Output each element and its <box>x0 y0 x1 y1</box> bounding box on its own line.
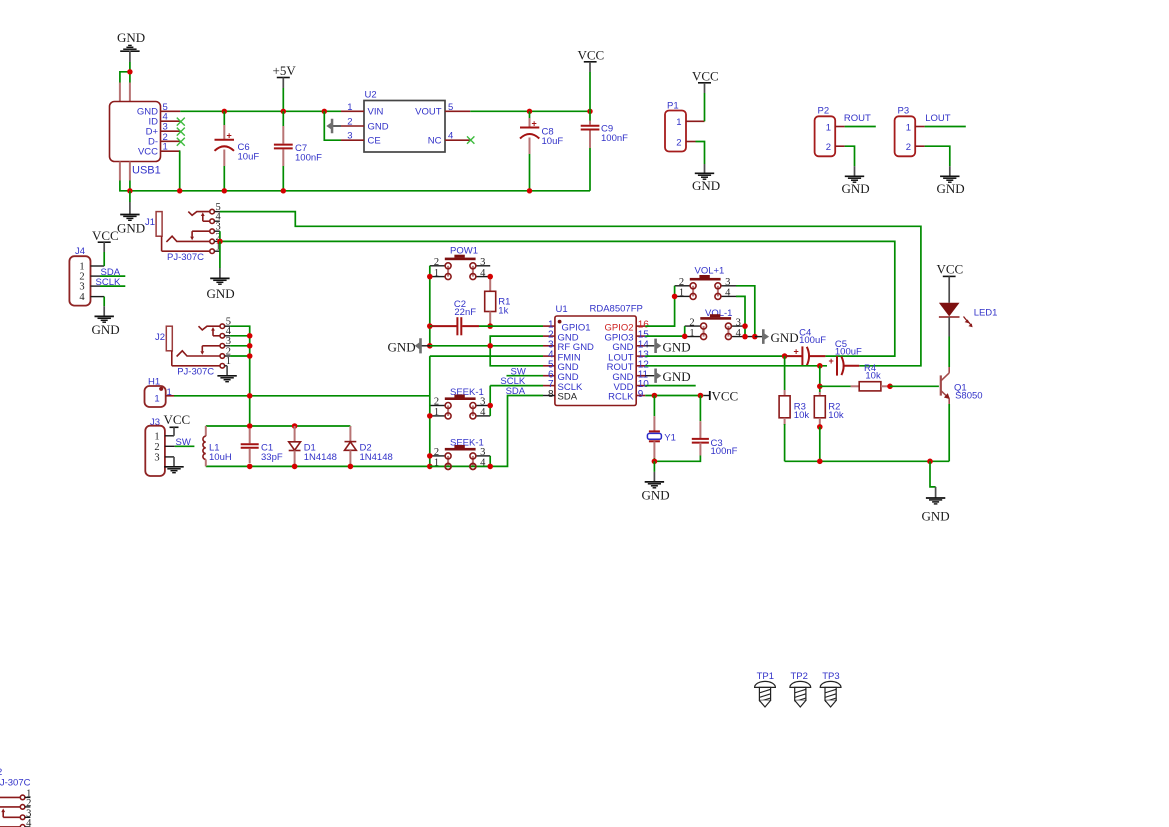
ground GND (below J1) <box>207 268 235 301</box>
svg-text:VCC: VCC <box>937 262 964 277</box>
svg-text:SDA: SDA <box>506 386 526 397</box>
wire: bottom rail to SDA riser <box>430 396 543 467</box>
no-connect X on USB1 pin 3 <box>177 128 185 136</box>
svg-text:3: 3 <box>480 397 485 408</box>
SEEK-1 lower pin1/pin4 circles (over rail) <box>445 463 451 469</box>
ground GND (below Y1) <box>642 472 670 502</box>
svg-text:9: 9 <box>638 389 644 400</box>
node: junction SEEK upper pin3 <box>487 403 493 409</box>
svg-text:GND: GND <box>692 178 720 193</box>
net label SCLK / wire U1 pin7 <box>490 376 543 387</box>
node: junction R4 right <box>887 384 893 390</box>
resistor R3 10k <box>779 390 809 425</box>
capacitor C4 100uF (series in LOUT) <box>786 327 826 366</box>
svg-text:10uF: 10uF <box>542 136 564 147</box>
svg-text:2: 2 <box>154 442 159 453</box>
ground GND (below P2) <box>842 166 870 196</box>
node: junction VOL-1 pin1 <box>682 334 688 340</box>
ground flag (arrow) GND for VOL buttons <box>755 329 799 345</box>
svg-text:GND: GND <box>207 286 235 301</box>
wire: J2 pin4 stub <box>230 335 250 337</box>
node: junction VOL buttons GND point <box>752 334 758 340</box>
svg-text:GND: GND <box>663 369 691 384</box>
node: junction CE branch on rail <box>322 109 327 114</box>
net label SCLK / wire J4 pin3 <box>96 277 126 288</box>
svg-text:2: 2 <box>434 257 439 268</box>
inductor L1 10uH <box>203 426 232 466</box>
node: junction at USB top ground <box>127 69 132 74</box>
wire: SEEK lower right pins vertical <box>489 456 491 467</box>
svg-text:GND: GND <box>388 339 416 354</box>
svg-text:10k: 10k <box>865 371 881 382</box>
transistor Q1 S8050 <box>941 367 983 404</box>
svg-text:10uF: 10uF <box>238 152 260 163</box>
svg-text:LED1: LED1 <box>974 307 998 318</box>
connector USB1 <box>110 83 181 181</box>
svg-text:2: 2 <box>679 277 684 288</box>
wire: R3 bottom to GND rail <box>784 424 786 461</box>
crystal Y1 <box>647 396 676 459</box>
header H1 (FM antenna) <box>145 377 175 408</box>
node: junction C6 on rail <box>222 109 227 114</box>
power VCC (above C9) <box>578 48 605 112</box>
node: junction SEEK upper pin1 <box>427 413 433 419</box>
LED LED1 <box>939 303 998 337</box>
node: junction VOL+1 pin4 / VOL-1 pin3 <box>742 323 748 329</box>
power VCC (above LED1) <box>937 262 964 303</box>
node: junction C6 on bottom rail <box>222 188 227 193</box>
svg-text:3: 3 <box>736 317 741 328</box>
wire: SEEK upper right pins to SCLK <box>489 386 491 416</box>
svg-text:10k: 10k <box>794 410 810 421</box>
svg-text:TP1: TP1 <box>757 671 774 682</box>
audio jack J2 PJ-307C <box>155 317 232 378</box>
svg-text:GND: GND <box>92 322 120 337</box>
svg-text:4: 4 <box>725 288 731 299</box>
wire: +5V rail from USB1 pin5 to U2 VIN <box>180 110 341 112</box>
svg-text:3: 3 <box>347 131 352 142</box>
net label SDA / wire J4 pin2 <box>100 267 125 278</box>
pushbutton POW1 <box>430 246 490 280</box>
svg-text:P3: P3 <box>898 106 910 117</box>
node: junction VCC stub / C9 <box>587 109 592 114</box>
wire: tank top rail <box>206 425 351 427</box>
ground flag (arrow) GND at U1 pin14 <box>645 339 690 355</box>
no-connect X on U2 NC pin <box>467 136 474 143</box>
svg-text:U2: U2 <box>365 90 377 101</box>
wire: J1 pin5 long route to C5 right (headphone R) <box>220 212 921 366</box>
wire: USB1 VCC pin down to bottom rail <box>179 151 182 191</box>
svg-text:RCLK: RCLK <box>608 392 634 403</box>
node: junction R4 left / R2 top <box>817 384 823 390</box>
wire: tank bottom rail <box>206 465 430 467</box>
power +5V <box>273 63 297 112</box>
svg-text:+5V: +5V <box>273 63 297 78</box>
svg-text:2: 2 <box>906 142 911 153</box>
node: junction SEEK lower pin1 on bottom rail <box>427 464 433 470</box>
svg-text:4: 4 <box>736 328 742 339</box>
wire: VOL+1 pin3 down to GND flag <box>736 286 755 337</box>
svg-text:8: 8 <box>548 389 554 400</box>
wire: POW1 left pins down to C2/GND net <box>429 266 431 346</box>
svg-text:4: 4 <box>79 292 85 303</box>
wire: H1 to antenna bus <box>174 395 430 397</box>
svg-text:2: 2 <box>676 137 681 148</box>
svg-text:5: 5 <box>448 102 453 113</box>
wire: U1 pin15 GPIO3 to VOL-1 left pins <box>645 326 685 336</box>
svg-text:RDA8507FP: RDA8507FP <box>590 304 643 315</box>
wire: bottom GND rail <box>120 181 590 191</box>
node: junction +5V / C7 on rail <box>281 109 286 114</box>
svg-text:3: 3 <box>480 447 485 458</box>
svg-text:GND: GND <box>937 181 965 196</box>
svg-text:+: + <box>829 356 834 366</box>
connector J3 <box>145 417 175 476</box>
svg-text:100uF: 100uF <box>799 335 826 346</box>
node: junction SEEK lower pin4 on rail <box>487 464 493 470</box>
node: junction on VOL-1 pin4 line <box>742 334 748 340</box>
wire: Q1 emitter down to GND rail <box>948 404 950 461</box>
wire: U1 pin13 LOUT <box>645 355 790 357</box>
node: junction J2 pin2 <box>247 353 253 359</box>
capacitor C7 100nF <box>274 111 322 191</box>
wire: U1 pin2 GND to GND net <box>490 336 543 366</box>
node: junction GND drop on right rail <box>927 459 933 465</box>
net label SW / wire J3 pin2 <box>175 437 195 448</box>
wire: down to crystal ground <box>653 461 655 472</box>
svg-text:33pF: 33pF <box>261 452 283 463</box>
svg-text:GND: GND <box>771 330 799 345</box>
svg-text:22nF: 22nF <box>454 307 476 318</box>
svg-text:PJ-307C: PJ-307C <box>0 778 31 789</box>
wire: P1 pin2 to ground <box>696 142 705 165</box>
svg-text:1: 1 <box>689 328 694 339</box>
svg-text:VCC: VCC <box>164 412 191 427</box>
svg-text:3: 3 <box>725 277 730 288</box>
svg-text:3: 3 <box>480 257 485 268</box>
svg-text:2: 2 <box>826 142 831 153</box>
wire: CE to +5V rail <box>324 111 341 140</box>
ground GND (top-left, flipped up) <box>117 30 145 62</box>
svg-text:P2: P2 <box>818 106 830 117</box>
svg-text:GND: GND <box>663 339 691 354</box>
node: junction Y1 tap on RCLK wire <box>652 393 658 399</box>
node: junction C3 tap <box>698 393 704 399</box>
wire: U1 pin12 ROUT <box>645 365 827 367</box>
svg-text:1: 1 <box>226 356 231 367</box>
node: junction VOL+1 pin1 <box>672 294 678 300</box>
svg-text:10uH: 10uH <box>209 452 232 463</box>
svg-text:U1: U1 <box>556 304 568 315</box>
capacitor C3 100nF <box>692 396 738 457</box>
ground GND (below P3) <box>937 166 965 196</box>
ground GND (below J4) <box>92 306 120 337</box>
node: junction at J1 pin2 <box>217 239 223 245</box>
test point TP2 <box>790 671 811 707</box>
net label LOUT / wire stub P3 pin1 <box>925 113 966 127</box>
wire: LED1 to Q1 collector <box>948 337 950 368</box>
svg-text:NC: NC <box>428 136 442 147</box>
svg-text:1: 1 <box>434 268 439 279</box>
wire: R4 to Q1 base <box>890 385 939 387</box>
node: junction GND vertical on RF GND wire <box>427 343 433 349</box>
resistor R1 1k <box>485 279 511 327</box>
wire: P2 pin2 to ground <box>845 146 855 166</box>
svg-text:2: 2 <box>347 117 352 128</box>
svg-text:4: 4 <box>448 131 453 142</box>
svg-text:2: 2 <box>689 317 694 328</box>
svg-text:GND: GND <box>117 30 145 45</box>
svg-text:VCC: VCC <box>712 388 739 403</box>
diode D2 1N4148 <box>345 426 393 466</box>
svg-text:J1: J1 <box>145 217 155 228</box>
diode D1 1N4148 <box>289 426 337 466</box>
node: junction SEEK lower pin2 <box>427 453 433 459</box>
wire: U2 VOUT to VCC rail <box>470 110 590 112</box>
wire: right GND rail <box>785 460 950 462</box>
wire: J1 pin3 to pin2 junction <box>219 231 221 241</box>
ground GND (bottom right) <box>922 487 950 524</box>
ground GND (below USB1) <box>117 191 145 236</box>
capacitor C6 10uF <box>215 111 260 191</box>
svg-text:100uF: 100uF <box>835 347 862 358</box>
wire: Y1/C3 bottom tie <box>654 456 700 462</box>
power VCC (at J3 pin1) <box>164 412 191 436</box>
wire: J2 pin5 to antenna bus <box>230 326 250 426</box>
node: junction D1 on tank rail <box>292 423 298 429</box>
capacitor C2 22nF (series in GPIO1 wire) <box>430 299 543 335</box>
node: junction Y1 ground point <box>652 459 658 465</box>
svg-text:VCC: VCC <box>578 48 605 63</box>
capacitor C1 33pF <box>241 429 283 463</box>
svg-text:1: 1 <box>163 142 168 153</box>
node: junction VCC drop on rail <box>177 188 182 193</box>
svg-text:1: 1 <box>826 122 831 133</box>
svg-text:1N4148: 1N4148 <box>304 452 337 463</box>
svg-text:2: 2 <box>0 767 2 778</box>
wire: P1 pin1 to VCC <box>704 93 706 121</box>
wire: U1 pin4 FMIN to antenna bus <box>430 355 543 357</box>
node: junction C1 on bottom rail <box>247 464 253 470</box>
svg-text:TP2: TP2 <box>791 671 808 682</box>
wire: ROUT junction down to R4/R2 <box>819 366 821 392</box>
svg-text:SDA: SDA <box>558 392 578 403</box>
power VCC (above J4 pin1) <box>92 228 119 266</box>
IC U1 RDA8507FP <box>543 304 649 406</box>
ground (small, at J3 pin3) <box>164 457 183 473</box>
ground flag (arrow) GND at U1 pin11 <box>645 369 690 385</box>
ground flag (arrow) at U2 GND pin <box>326 119 341 133</box>
svg-text:1k: 1k <box>498 306 508 317</box>
net label SW / wire U1 pin6 <box>507 366 544 377</box>
svg-text:1: 1 <box>434 407 439 418</box>
no-connect X on USB1 pin 4 <box>177 118 185 126</box>
node: junction USB bottom <box>127 188 132 193</box>
wire: P3 pin2 to ground <box>925 146 950 166</box>
wire: U1 pin3 RF GND <box>429 345 544 347</box>
svg-text:4: 4 <box>480 407 486 418</box>
svg-text:J2: J2 <box>155 332 165 343</box>
svg-text:CE: CE <box>368 136 381 147</box>
node: junction R1 bottom on GPIO1 wire <box>487 323 493 329</box>
node: junction antenna bus on tank rail <box>247 423 253 429</box>
node: junction ROUT / R4-R2 tap <box>817 363 823 369</box>
node: junction C2 left on GND vertical <box>427 323 433 329</box>
svg-text:VIN: VIN <box>368 107 384 118</box>
pushbutton SEEK-1 (lower) <box>430 438 490 470</box>
ground (small, below J2 pin1) <box>217 366 236 382</box>
connector P3 <box>895 106 925 157</box>
no-connect X on USB1 pin 2 <box>177 138 185 146</box>
wire: USB1 right bottom pin to rail <box>129 181 131 191</box>
connector J4 <box>69 246 104 306</box>
svg-text:1: 1 <box>154 394 159 405</box>
wire: J2 pin2 stub <box>230 355 250 357</box>
svg-text:3: 3 <box>79 282 84 293</box>
node: junction D1 on bottom rail <box>292 464 298 470</box>
ground flag (arrow) GND at RF GND wire end <box>388 338 430 354</box>
svg-text:1: 1 <box>906 122 911 133</box>
capacitor C5 100uF (series in ROUT) <box>829 339 863 375</box>
svg-text:3: 3 <box>154 452 159 463</box>
wire: R3 top from LOUT junction <box>784 356 786 390</box>
svg-text:USB1: USB1 <box>132 165 161 177</box>
svg-text:100nF: 100nF <box>295 153 322 164</box>
node: junction R2 on right GND rail <box>817 459 823 465</box>
node: junction R2 bottom <box>817 424 823 430</box>
svg-text:Y1: Y1 <box>664 432 676 443</box>
pushbutton VOL+1 <box>675 266 736 300</box>
wire: GND drop below right rail <box>930 461 936 487</box>
svg-text:10k: 10k <box>828 410 844 421</box>
wire: top ground stub to USB1 <box>120 62 130 83</box>
node: junction LOUT / R3 tap <box>782 353 788 359</box>
svg-text:GND: GND <box>368 121 389 132</box>
svg-text:2: 2 <box>26 798 31 809</box>
wire: R2 bottom to GND rail <box>819 427 821 461</box>
node: junction D2 on bottom rail <box>348 464 354 470</box>
wire: J2 pin3 stub <box>230 345 250 347</box>
svg-text:GND: GND <box>117 220 145 235</box>
svg-text:GND: GND <box>922 509 950 524</box>
svg-text:1: 1 <box>167 387 172 398</box>
svg-text:VCC: VCC <box>92 228 119 243</box>
regulator U2 <box>341 90 470 153</box>
svg-text:4: 4 <box>26 818 32 827</box>
node: junction pin2/pin5 bus on RF GND wire <box>487 343 493 349</box>
svg-text:1N4148: 1N4148 <box>360 452 393 463</box>
node: junction J2 pin3 <box>247 343 253 349</box>
node: junction C8 on bottom rail <box>527 188 532 193</box>
node: junction POW1 pin1 <box>427 274 433 280</box>
net label ROUT / wire stub P2 pin1 <box>844 113 876 127</box>
power VCC (port at RCLK wire) <box>704 388 739 403</box>
power VCC (above P1) <box>692 69 719 94</box>
wire: U1 pin10 VDD stub <box>645 385 696 387</box>
svg-text:2: 2 <box>434 447 439 458</box>
node: junction POW1 pin4 / R1 top <box>487 274 493 280</box>
svg-text:PJ-307C: PJ-307C <box>167 252 204 263</box>
resistor R2 10k <box>814 392 844 427</box>
svg-text:100nF: 100nF <box>711 446 738 457</box>
node: junction C7 on bottom rail <box>281 188 286 193</box>
connector P2 <box>815 106 845 157</box>
capacitor C8 10uF <box>520 111 563 191</box>
svg-text:VCC: VCC <box>692 69 719 84</box>
svg-text:GND: GND <box>642 487 670 502</box>
pushbutton SEEK-1 (upper) <box>430 387 490 419</box>
svg-text:S8050: S8050 <box>955 391 982 402</box>
svg-text:1: 1 <box>679 288 684 299</box>
svg-text:1: 1 <box>154 431 159 442</box>
wire: VOL+1 pin4 down through VOL-1 pin3 to pin4 <box>736 296 745 336</box>
wire: FMIN vertical bus through SEEK buttons <box>429 356 431 466</box>
svg-text:PJ-307C: PJ-307C <box>177 366 214 377</box>
ground GND (below P1) <box>692 164 720 193</box>
svg-text:VCC: VCC <box>138 146 158 157</box>
wire: J1 pin1/pin2 down to ground <box>219 241 221 268</box>
capacitor C9 100nF <box>581 111 628 191</box>
test point TP1 <box>755 671 776 707</box>
svg-text:+: + <box>794 346 799 356</box>
wire: U1 pin9 RCLK to VCC port <box>645 395 703 397</box>
node: junction J2 pin4 <box>247 333 253 339</box>
node: junction C8 on VCC rail <box>527 109 532 114</box>
resistor R4 10k <box>820 363 890 391</box>
svg-text:TP3: TP3 <box>822 671 839 682</box>
svg-text:2: 2 <box>434 397 439 408</box>
svg-text:1: 1 <box>347 102 352 113</box>
wire: J4 pin4 to ground <box>103 297 105 307</box>
svg-text:GND: GND <box>842 181 870 196</box>
svg-text:1: 1 <box>676 117 681 128</box>
svg-text:LOUT: LOUT <box>925 113 951 124</box>
audio jack (partial, bottom-left corner) PJ-307C <box>0 767 32 827</box>
wire: U1 pin16 GPIO2 to VOL+1 left pins <box>645 286 674 326</box>
node: junction H1 wire / J2 bus <box>247 393 253 399</box>
audio jack J1 PJ-307C <box>145 202 222 263</box>
svg-text:100nF: 100nF <box>601 133 628 144</box>
wire: J1 pin2 long route to C4 right (headphone L) <box>220 241 895 356</box>
svg-text:4: 4 <box>480 268 486 279</box>
svg-text:ROUT: ROUT <box>844 113 871 124</box>
test point TP3 <box>820 671 841 707</box>
svg-text:VOUT: VOUT <box>415 107 442 118</box>
connector P1 <box>665 101 705 152</box>
pushbutton VOL-1 <box>685 308 755 340</box>
